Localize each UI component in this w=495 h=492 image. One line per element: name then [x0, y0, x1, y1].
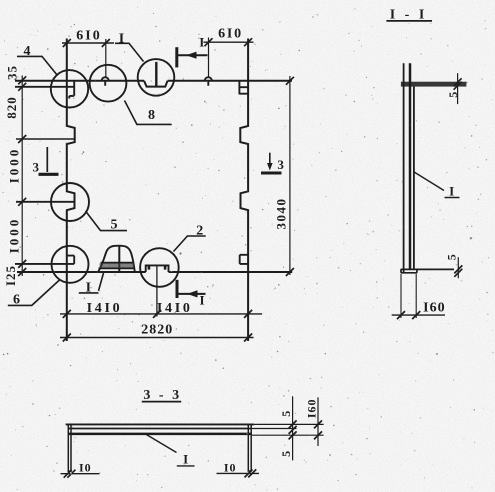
- section marker I (top): arrow line: [178, 54, 208, 56]
- ext line at y139 into left notch: [16, 138, 74, 140]
- bottom-right corner notch: [240, 255, 248, 264]
- svg-text:820: 820: [4, 96, 19, 119]
- svg-text:5: 5: [279, 450, 293, 457]
- 3-3 slab top line: [66, 423, 254, 425]
- 3-3 dim line A (5/5): [292, 396, 294, 460]
- bottom dim line 2820: [60, 337, 254, 339]
- svg-text:I4I0: I4I0: [157, 301, 193, 316]
- label 1 (bell) leader: [79, 273, 104, 293]
- lifting loop bell (elevation) on bottom edge: [98, 246, 135, 272]
- svg-text:I: I: [199, 35, 204, 50]
- I-I wall lines: [403, 63, 405, 273]
- svg-text:35: 35: [5, 65, 20, 80]
- left column tick marks: [18, 76, 26, 276]
- svg-text:I: I: [183, 452, 188, 467]
- lifting loop on top edge, right: [205, 77, 212, 85]
- svg-text:3040: 3040: [274, 198, 289, 230]
- label 1 (top) leader: [115, 43, 144, 61]
- 3-3 slab middle line: [68, 428, 252, 430]
- top-left corner rebate (detail 4): [15, 81, 74, 99]
- svg-text:I000: I000: [6, 147, 21, 184]
- 3-3 title underline: [142, 401, 181, 403]
- I-I dim 5 top: [457, 73, 459, 104]
- I-I base: [401, 269, 454, 272]
- detail-2 center extension line down to dim line: [156, 265, 158, 316]
- svg-text:5: 5: [279, 410, 293, 417]
- left edge of panel with keyway notches: [67, 39, 75, 342]
- top-right corner rebate: [239, 81, 248, 94]
- label 4 leader: [17, 56, 58, 75]
- I-I top flange: [401, 82, 467, 87]
- detail circle 5: [51, 183, 89, 221]
- svg-text:8: 8: [148, 108, 155, 123]
- ext line from loop left to dim: [105, 39, 107, 77]
- top edge of panel (with ext lines, broken by detail-1 recess): [15, 80, 292, 82]
- ext line from loop right to dim: [208, 38, 210, 77]
- section marker 3 (left): [46, 147, 48, 172]
- ext line at y201.8 into detail-5 notch: [16, 201, 74, 203]
- svg-text:I0: I0: [224, 461, 237, 475]
- label 5 leader: [86, 211, 128, 231]
- bottom edge of panel (broken by detail-2 recess): [17, 271, 292, 273]
- svg-text:3 - 3: 3 - 3: [143, 388, 181, 403]
- 3-3 left leg: [68, 424, 72, 471]
- I-I ext lines for 160: [401, 274, 416, 318]
- svg-text:6I0: 6I0: [76, 29, 101, 44]
- detail-1 recess in top edge: [144, 81, 167, 87]
- right edge of panel with keyway notches: [240, 39, 248, 342]
- bell dark band: [100, 263, 135, 268]
- right 3040 dimension line: [289, 76, 291, 275]
- label 2 leader: [174, 236, 206, 252]
- svg-text:I60: I60: [423, 300, 445, 315]
- svg-text:I: I: [119, 32, 124, 47]
- detail circle 1: [138, 59, 175, 96]
- 3-3 right leg: [248, 424, 252, 471]
- I-I label 1 leader: [414, 172, 460, 198]
- svg-text:2: 2: [196, 224, 203, 239]
- svg-text:I60: I60: [305, 398, 319, 418]
- section marker I (bottom): bar: [176, 280, 179, 298]
- svg-text:I25: I25: [3, 265, 18, 286]
- svg-text:I0: I0: [79, 461, 92, 475]
- I-I dim 5 bottom: [457, 257, 459, 278]
- svg-text:5: 5: [445, 253, 459, 260]
- tick marks top dims: [63, 38, 252, 47]
- bottom dim line 1410/1410: [60, 313, 262, 315]
- detail circle 8: [90, 65, 127, 102]
- top dimension line (610 / 610): [62, 41, 254, 44]
- svg-text:I: I: [86, 281, 91, 296]
- bell horizontal lines: [99, 263, 135, 269]
- svg-text:6: 6: [13, 293, 20, 308]
- svg-text:2820: 2820: [141, 322, 173, 337]
- detail circle 4: [51, 70, 88, 107]
- svg-text:I: I: [449, 184, 454, 199]
- 3-3 slab bottom line: [68, 433, 252, 436]
- svg-text:5: 5: [111, 218, 118, 233]
- 3-3 dim line B (160): [317, 397, 319, 446]
- label 6 leader: [8, 280, 60, 306]
- left dimension column line: [21, 76, 23, 277]
- detail-2 recess in bottom edge: [146, 265, 169, 272]
- svg-text:3: 3: [277, 157, 284, 172]
- 3-3 label I leader: [146, 435, 194, 466]
- svg-text:3: 3: [33, 160, 40, 175]
- svg-text:I000: I000: [6, 217, 21, 254]
- bottom dims tick marks: [63, 310, 252, 342]
- I-I title underline: [386, 20, 432, 22]
- svg-text:I: I: [199, 293, 204, 308]
- detail-2 recess corner ticks: [149, 265, 165, 269]
- lifting loop on top edge, left (in detail 8): [102, 77, 109, 86]
- section marker I (bottom): arrow line: [178, 293, 206, 295]
- detail circle 6: [52, 246, 89, 283]
- 3-3 left 10 dim: [61, 473, 100, 475]
- svg-text:I - I: I - I: [390, 8, 428, 23]
- svg-text:4: 4: [24, 44, 31, 59]
- section marker I (top): bar: [175, 47, 178, 67]
- I-I dim line 160: [392, 314, 445, 316]
- svg-text:5: 5: [446, 91, 460, 98]
- svg-text:I4I0: I4I0: [87, 301, 123, 316]
- section marker 3 (right): [269, 153, 271, 167]
- bell center line: [118, 246, 120, 272]
- detail-1 center bar: [155, 62, 157, 87]
- 3-3 right 10 dim: [217, 472, 260, 474]
- detail circle 2: [140, 248, 179, 287]
- label 8 leader: [125, 101, 172, 125]
- svg-text:6I0: 6I0: [218, 27, 243, 42]
- bottom-left corner notch (detail 6): [15, 256, 74, 264]
